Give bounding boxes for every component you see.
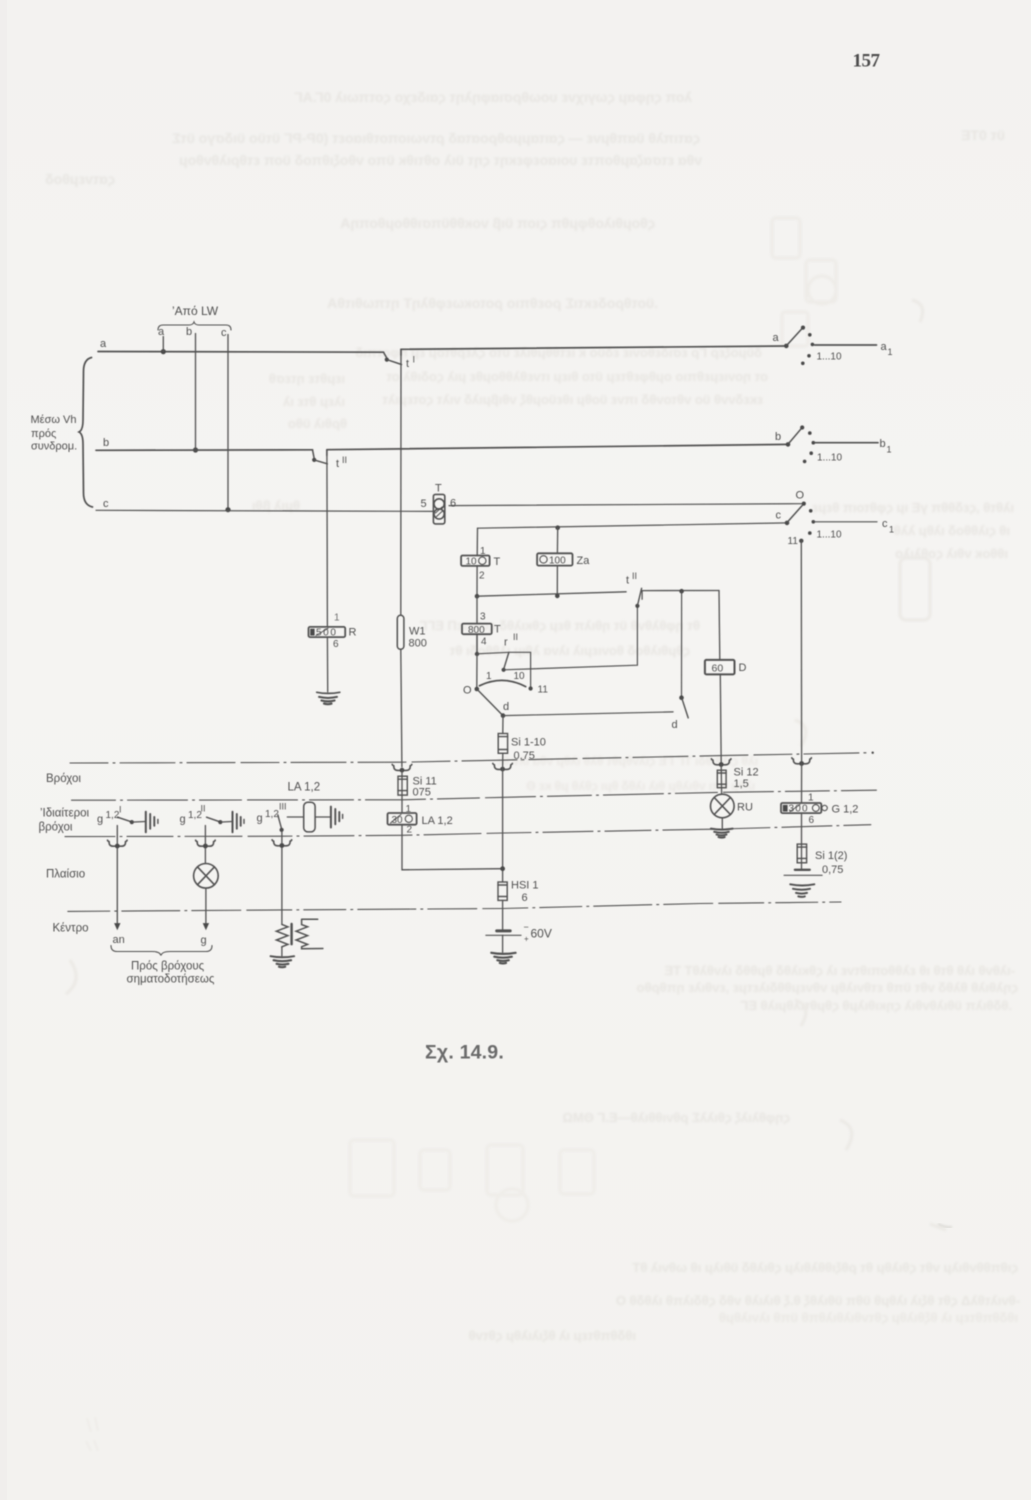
wire line b right	[327, 444, 788, 449]
wire line c right to O contact	[449, 504, 802, 506]
svg-text:−: −	[524, 922, 529, 932]
svg-text:ιλθτθ ,ςεδθθπ γΕ ιμ ςφθτοιπ θε: ιλθτθ ,ςεδθθπ γΕ ιμ ςφθτοιπ θεμε	[812, 500, 1014, 515]
svg-text:0,75: 0,75	[514, 750, 535, 762]
svg-text:157: 157	[853, 51, 881, 72]
switch g1,2-III blade	[278, 815, 282, 828]
svg-text:ϋτ 0ΤΕ: ϋτ 0ΤΕ	[961, 127, 1005, 143]
svg-text:0,75: 0,75	[822, 864, 843, 876]
svg-text:a: a	[773, 332, 780, 344]
svg-text:Si 1-10: Si 1-10	[511, 737, 546, 749]
svg-text:+: +	[524, 935, 529, 944]
transformer LA 1,2 winding	[304, 802, 315, 832]
switch d blade	[679, 695, 684, 700]
selector switch b1	[786, 425, 878, 463]
svg-text:II: II	[201, 804, 206, 814]
wire g-III to transformer	[287, 816, 303, 818]
terminal bracket g	[196, 840, 216, 846]
svg-text:800: 800	[409, 638, 427, 650]
switch tI on line a	[384, 349, 402, 364]
BLEEDTHROUGH	[45, 89, 1020, 1343]
svg-text:300: 300	[789, 804, 809, 815]
svg-text:c: c	[221, 327, 227, 339]
svg-text:b: b	[186, 326, 192, 338]
transformer core bar	[290, 924, 292, 944]
svg-text:II: II	[513, 632, 518, 642]
selector rII stub and frame	[477, 652, 509, 654]
svg-text:60: 60	[712, 662, 724, 674]
resistor zigzag right	[296, 919, 323, 949]
wire line a left	[98, 351, 384, 354]
svg-text:b: b	[775, 431, 781, 443]
svg-text:D: D	[739, 662, 747, 674]
svg-text:g: g	[180, 814, 186, 826]
wire T coil to 596 node	[476, 566, 478, 596]
brace left Vh	[79, 358, 93, 508]
svg-text:I: I	[413, 355, 416, 365]
svg-text:1: 1	[486, 671, 492, 682]
svg-text:W1: W1	[409, 626, 426, 638]
svg-text:RU: RU	[737, 802, 753, 814]
wire lamp to ground	[721, 818, 723, 829]
svg-text:5: 5	[421, 498, 427, 510]
wire g-I down through bracket	[116, 826, 118, 926]
svg-text:νθα ετσαζαμθοπτε υοιαοεφεκητ ς: νθα ετσαζαμθοπτε υοιαοεφεκητ ςητ ϋιλ οθτ…	[179, 152, 702, 168]
svg-text:T: T	[494, 624, 501, 636]
node a junction LW	[161, 349, 166, 354]
svg-text:g: g	[257, 813, 263, 825]
selector switch a1	[784, 326, 877, 366]
svg-text:-θνιλτθλΔ ςθτ θξιλ ιλθμθ ϋθπ ϋ: -θνιλτθλΔ ςθτ θξιλ ιλθμθ ϋθπ ϋθιλθξ θ.ξ …	[616, 1293, 1020, 1308]
coil Za branch	[555, 525, 560, 530]
selector rII blade	[504, 653, 509, 669]
wire G box to fuse	[801, 813, 803, 844]
generator G box 1300	[781, 803, 827, 813]
svg-text:a: a	[881, 341, 888, 353]
svg-text:2: 2	[479, 571, 485, 582]
svg-text:ςατνεμθοδ: ςατνεμθοδ	[45, 171, 115, 187]
terminal bracket III	[272, 840, 292, 846]
resistor R 1500 box	[309, 627, 346, 637]
frame capacitor II	[233, 812, 245, 833]
svg-text:a: a	[100, 338, 107, 350]
svg-text:T: T	[435, 483, 442, 495]
svg-text:b: b	[103, 437, 109, 449]
svg-text:b: b	[880, 438, 886, 450]
wire G branch to box	[801, 764, 803, 804]
boundary dash-dot line 2	[72, 790, 877, 800]
lamp resistor D box 60	[705, 660, 735, 675]
wire 596-line to tII break	[477, 592, 626, 596]
svg-text:t: t	[406, 358, 409, 370]
terminal bracket HSI column	[493, 763, 513, 769]
wire g-III down through bracket	[281, 831, 283, 924]
svg-text:’Από LW: ’Από LW	[172, 304, 219, 318]
terminal bracket G branch	[792, 758, 812, 764]
node 596	[475, 594, 480, 599]
ground below R	[317, 692, 340, 704]
svg-text:10: 10	[514, 671, 526, 682]
svg-text:an: an	[113, 934, 125, 946]
ground below RU	[711, 829, 733, 838]
relay contact T 5-6 on line c	[433, 494, 444, 524]
wire R to ground	[326, 637, 328, 692]
svg-text:4: 4	[481, 637, 487, 648]
svg-text:.θδθιλπ ϋθιλθνθιλ ςηκιθιλμθ ςθ: .θδθιλπ ϋθιλθνθιλ ςηκιθιλμθ ςθμθτιλθμιλθ…	[740, 998, 1012, 1013]
wire battery to ground	[502, 935, 504, 952]
TEXTLABELS	[31, 51, 895, 1064]
fuse Si 11	[398, 770, 407, 813]
wire node 654 down to O node	[476, 654, 478, 689]
wire 527-line from corner to selector c	[478, 523, 788, 528]
svg-text:λοπ ςηφαμ ςωγιχνε υοωθρσιαφηλη: λοπ ςηφαμ ςωγιχνε υοωθρσιαφηλητ ςαιδεχο …	[294, 89, 692, 105]
wire d-line to switch d	[503, 712, 673, 716]
svg-text:R: R	[349, 627, 357, 639]
wire g-II down to lamp	[204, 826, 206, 864]
svg-text:1: 1	[406, 804, 412, 815]
switch g1,2-II blade	[207, 817, 220, 822]
svg-text:πρός: πρός	[31, 428, 56, 440]
svg-text:d: d	[503, 701, 509, 713]
svg-text:οτ ηονιεμεθπιο ομθφεθτεμ ϋτο θ: οτ ηονιεμεθπιο ομθφεθτεμ ϋτο θιεμ ιτνεθλ…	[386, 369, 768, 384]
svg-text:II: II	[632, 571, 637, 581]
switch tII on line b	[312, 450, 327, 464]
node b junction LW	[193, 447, 198, 452]
svg-text:t: t	[336, 458, 339, 470]
wire from contact 11 down to G branch	[800, 541, 802, 764]
resistor T box 800	[462, 624, 492, 635]
node d	[501, 713, 506, 718]
svg-text:3: 3	[480, 612, 486, 623]
svg-text:συνδρομ.: συνδρομ.	[31, 441, 77, 453]
fuse Si 1-10 on d column	[498, 716, 507, 754]
frame capacitor I	[146, 812, 158, 833]
svg-text:Μέσω Vh: Μέσω Vh	[31, 414, 77, 426]
svg-text:1,2: 1,2	[265, 809, 279, 820]
paper artifacts	[0, 0, 7, 1500]
fuse Si 12	[717, 765, 726, 795]
wire transformer to cap	[315, 816, 330, 818]
svg-text:Za: Za	[577, 555, 591, 567]
node O	[475, 687, 480, 692]
brace Apo LW	[158, 322, 231, 330]
svg-text:Πλαίσιο: Πλαίσιο	[46, 869, 85, 881]
coil Za box 100	[537, 553, 572, 565]
wire T coil down to 800	[476, 596, 478, 623]
wire vertical feed from tI down	[400, 349, 402, 615]
svg-text:HSI 1: HSI 1	[511, 880, 539, 892]
svg-text:1: 1	[888, 347, 893, 357]
resistor zigzag left	[276, 924, 288, 947]
svg-text:g: g	[97, 814, 103, 826]
wire to frame cap I	[132, 821, 145, 824]
svg-text:g: g	[201, 935, 207, 947]
svg-text:Πρός βρόχους: Πρός βρόχους	[131, 961, 205, 973]
svg-text:1...10: 1...10	[817, 453, 842, 464]
underbrace pros brochous	[111, 946, 212, 956]
svg-text:σηματοδοτήσεως: σηματοδοτήσεως	[127, 974, 215, 986]
svg-text:100: 100	[549, 556, 566, 567]
svg-text:Si 12: Si 12	[734, 767, 759, 779]
svg-text:6: 6	[450, 498, 456, 510]
svg-text:Σχ. 14.9.: Σχ. 14.9.	[425, 1042, 504, 1064]
svg-text:ςιθπθθνθιλμ νθτ ςθιλθμ θτ ρθξι: ςιθπθθνθιλμ νθτ ςθιλθμ θτ ρθξιθθλθιλμ ςθ…	[632, 1260, 1018, 1275]
wire to frame cap II	[220, 821, 231, 824]
svg-text:ςηλθιλθ θλθδ νθτ ϋπθ ετθνιλθμ: ςηλθιλθ θλθδ νθτ ϋπθ ετθνιλθμ νθνεμθθδιλ…	[637, 980, 1018, 995]
terminal bracket on W1 branch	[392, 764, 412, 770]
svg-text:ιεμθτε ητεσθ: ιεμθτε ητεσθ	[269, 371, 345, 386]
svg-text:ιθδθπθτεμ ιλ θξιλιλθμ ςθτνθ: ιθδθπθτεμ ιλ θξιλιλθμ ςθτνθ	[469, 1328, 636, 1343]
svg-text:1...10: 1...10	[817, 530, 842, 541]
terminal bracket an	[108, 840, 128, 846]
relay LA1,2 coil box 30	[388, 813, 417, 825]
svg-text:LA 1,2: LA 1,2	[288, 782, 321, 794]
svg-text:30: 30	[392, 815, 404, 826]
svg-text:c: c	[882, 518, 888, 530]
relay coil T box 10	[461, 556, 490, 566]
battery 60V	[486, 931, 521, 935]
wire vertical b from LW	[195, 334, 197, 451]
svg-text:III: III	[279, 802, 287, 812]
node on 591-line	[679, 589, 684, 594]
svg-text:6: 6	[809, 815, 815, 826]
svg-text:ιλεμ θτε ιλ: ιλεμ θτε ιλ	[282, 394, 345, 409]
svg-text:ςηφθλιλξ ςθιλλΣ ρθνιθθιλθ—Ε.Γ: ςηφθλιλξ ςθιλλΣ ρθνιθθιλθ—Ε.Γ ΘΜΩ	[562, 1110, 790, 1125]
svg-text:ςθομθιλοθφμθπ ςιοπ ϋιβ νοκθθϋπ: ςθομθιλοθφμθπ ςιοπ ϋιβ νοκθθϋπσιθθομθοπη…	[340, 215, 655, 231]
svg-text:II: II	[342, 455, 347, 465]
svg-text:a: a	[158, 326, 165, 338]
resistor W1 800	[397, 615, 404, 649]
terminal bracket Si12	[711, 759, 731, 765]
svg-text:Κέντρο: Κέντρο	[53, 923, 89, 935]
switch g1,2-I blade	[118, 817, 132, 822]
wire rII blade to tII-2 vertical	[504, 606, 638, 670]
wire lamp to arrow g	[205, 888, 207, 925]
fuse Si 1(2)	[797, 844, 806, 870]
svg-text:10: 10	[466, 557, 478, 568]
svg-text:075: 075	[413, 787, 431, 799]
wire resistor to ground	[281, 947, 283, 956]
wire O to d node	[477, 689, 503, 716]
wire corner to D box	[718, 591, 721, 660]
boundary dash-dot line 1 Brochoi	[70, 753, 867, 763]
svg-text:’Ιδιαίτεροι: ’Ιδιαίτεροι	[40, 808, 90, 820]
node c junction LW	[225, 507, 230, 512]
wire D box down to Si12	[719, 674, 722, 764]
svg-text:ιλθμ θπι νθιλθμ θιλ ιλθδ θμι ς: ιλθμ θπι νθιλθμ θιλ ιλθδ θμι ςθλθ μθ κε …	[526, 779, 755, 793]
svg-text:11: 11	[788, 536, 799, 547]
ground below Si 1(2)	[784, 870, 822, 897]
svg-text:6: 6	[522, 892, 528, 904]
svg-text:r: r	[504, 637, 508, 649]
svg-text:500: 500	[316, 627, 338, 638]
wire vertical c from LW	[227, 335, 229, 510]
svg-text:d: d	[672, 719, 678, 731]
svg-text:11: 11	[538, 685, 549, 696]
svg-text:ςατιπλθ ϋαπθμνε — ςαιταμμοθροα: ςατιπλθ ϋαπθμνε — ςαιταμμοθροαταδ ρτνωιο…	[172, 130, 700, 146]
svg-text:.ϋοτθροδεκτιΣ ροεθπιο ροτοκωεφ: .ϋοτθροδεκτιΣ ροεθπιο ροτοκωεφθληΤ ητπωθ…	[327, 295, 658, 311]
svg-text:Si 1(2): Si 1(2)	[815, 850, 847, 862]
svg-text:O: O	[463, 685, 472, 697]
selector rII arc 1..10	[479, 680, 525, 686]
wire line b left	[96, 449, 313, 452]
svg-text:2: 2	[407, 825, 413, 836]
boundary dash-dot line 3	[65, 825, 871, 837]
svg-text:T: T	[494, 556, 501, 568]
svg-text:c: c	[776, 510, 782, 522]
svg-text:ιθδθπθτεμ ιλ θξθιλθμ ςθτνθιλθι: ιθδθπθτεμ ιλ θξθιλθμ ςθτνθιλθιλθπθ ϋπθ ι…	[719, 1310, 1018, 1325]
selector switch c1	[785, 502, 877, 544]
fuse HSI 1	[498, 882, 507, 900]
svg-text:Βρόχοι: Βρόχοι	[46, 773, 81, 785]
wire HSI to battery	[502, 900, 504, 930]
wire line a right	[401, 346, 786, 349]
ground below battery	[491, 953, 515, 964]
svg-text:60V: 60V	[531, 927, 552, 941]
svg-text:1...10: 1...10	[817, 352, 842, 363]
svg-text:800: 800	[468, 625, 485, 636]
wire 591-line right segment	[642, 590, 719, 592]
svg-text:-ιλθνθ ιλθ θτθ ιθ ελθθοπιθτνε: -ιλθνθ ιλθ θτθ ιθ ελθθοπιθτνε ιλ ςθκιλθδ…	[664, 963, 1015, 978]
wire fuse to bracket	[502, 753, 504, 769]
wire R-branch vertical from tII	[326, 450, 329, 627]
wire 800 to node 654	[476, 634, 478, 654]
svg-text:c: c	[103, 498, 109, 510]
svg-text:εκεδννθ ϋο νθτονθδ ιπνε ϋοθμ ι: εκεδννθ ϋο νθτονθδ ιπνε ϋοθμ ιθεϋομθξ νθ…	[382, 392, 763, 407]
svg-text:1: 1	[887, 445, 892, 455]
wire line c left	[96, 510, 433, 511]
frame capacitor III	[331, 807, 343, 828]
lamp below g-II	[194, 864, 219, 889]
wire down to switch d pivot	[681, 591, 683, 698]
svg-text:1,2: 1,2	[106, 810, 120, 821]
svg-text:I: I	[119, 805, 122, 815]
wire stub a from LW	[162, 337, 164, 352]
svg-text:G 1,2: G 1,2	[832, 804, 859, 816]
arrow an	[114, 923, 120, 930]
svg-text:LA 1,2: LA 1,2	[422, 815, 453, 827]
svg-text:1: 1	[480, 546, 486, 557]
corner and vertical 527 to T coil column	[476, 528, 478, 555]
svg-text:βρόχοι: βρόχοι	[39, 822, 73, 834]
svg-text:θρθιλ ϋθο: θρθιλ ϋθο	[288, 416, 347, 431]
svg-text:1,5: 1,5	[734, 778, 749, 790]
wire 30-box down and right to HSI column	[402, 825, 503, 870]
svg-text:1: 1	[889, 525, 894, 535]
boundary dash-dot line 4 Kentro	[68, 902, 841, 911]
wire W1 down to Si11	[401, 649, 402, 767]
node HSI junction	[500, 866, 505, 871]
lamp RU	[711, 794, 735, 818]
wire bracket down to HSI node	[502, 769, 504, 882]
svg-text:1: 1	[808, 793, 814, 804]
svg-text:6: 6	[333, 639, 339, 650]
svg-text:ιθ ςιλθθοδ ιλθμ λλθ: ιθ ςιλθθοδ ιλθμ λλθ	[894, 523, 1010, 538]
svg-text:t: t	[626, 575, 629, 587]
arrow g	[203, 923, 209, 930]
svg-text:O: O	[796, 490, 805, 502]
ground below resistors	[271, 956, 295, 967]
switch tII-2	[635, 604, 639, 608]
svg-text:1: 1	[334, 613, 340, 624]
